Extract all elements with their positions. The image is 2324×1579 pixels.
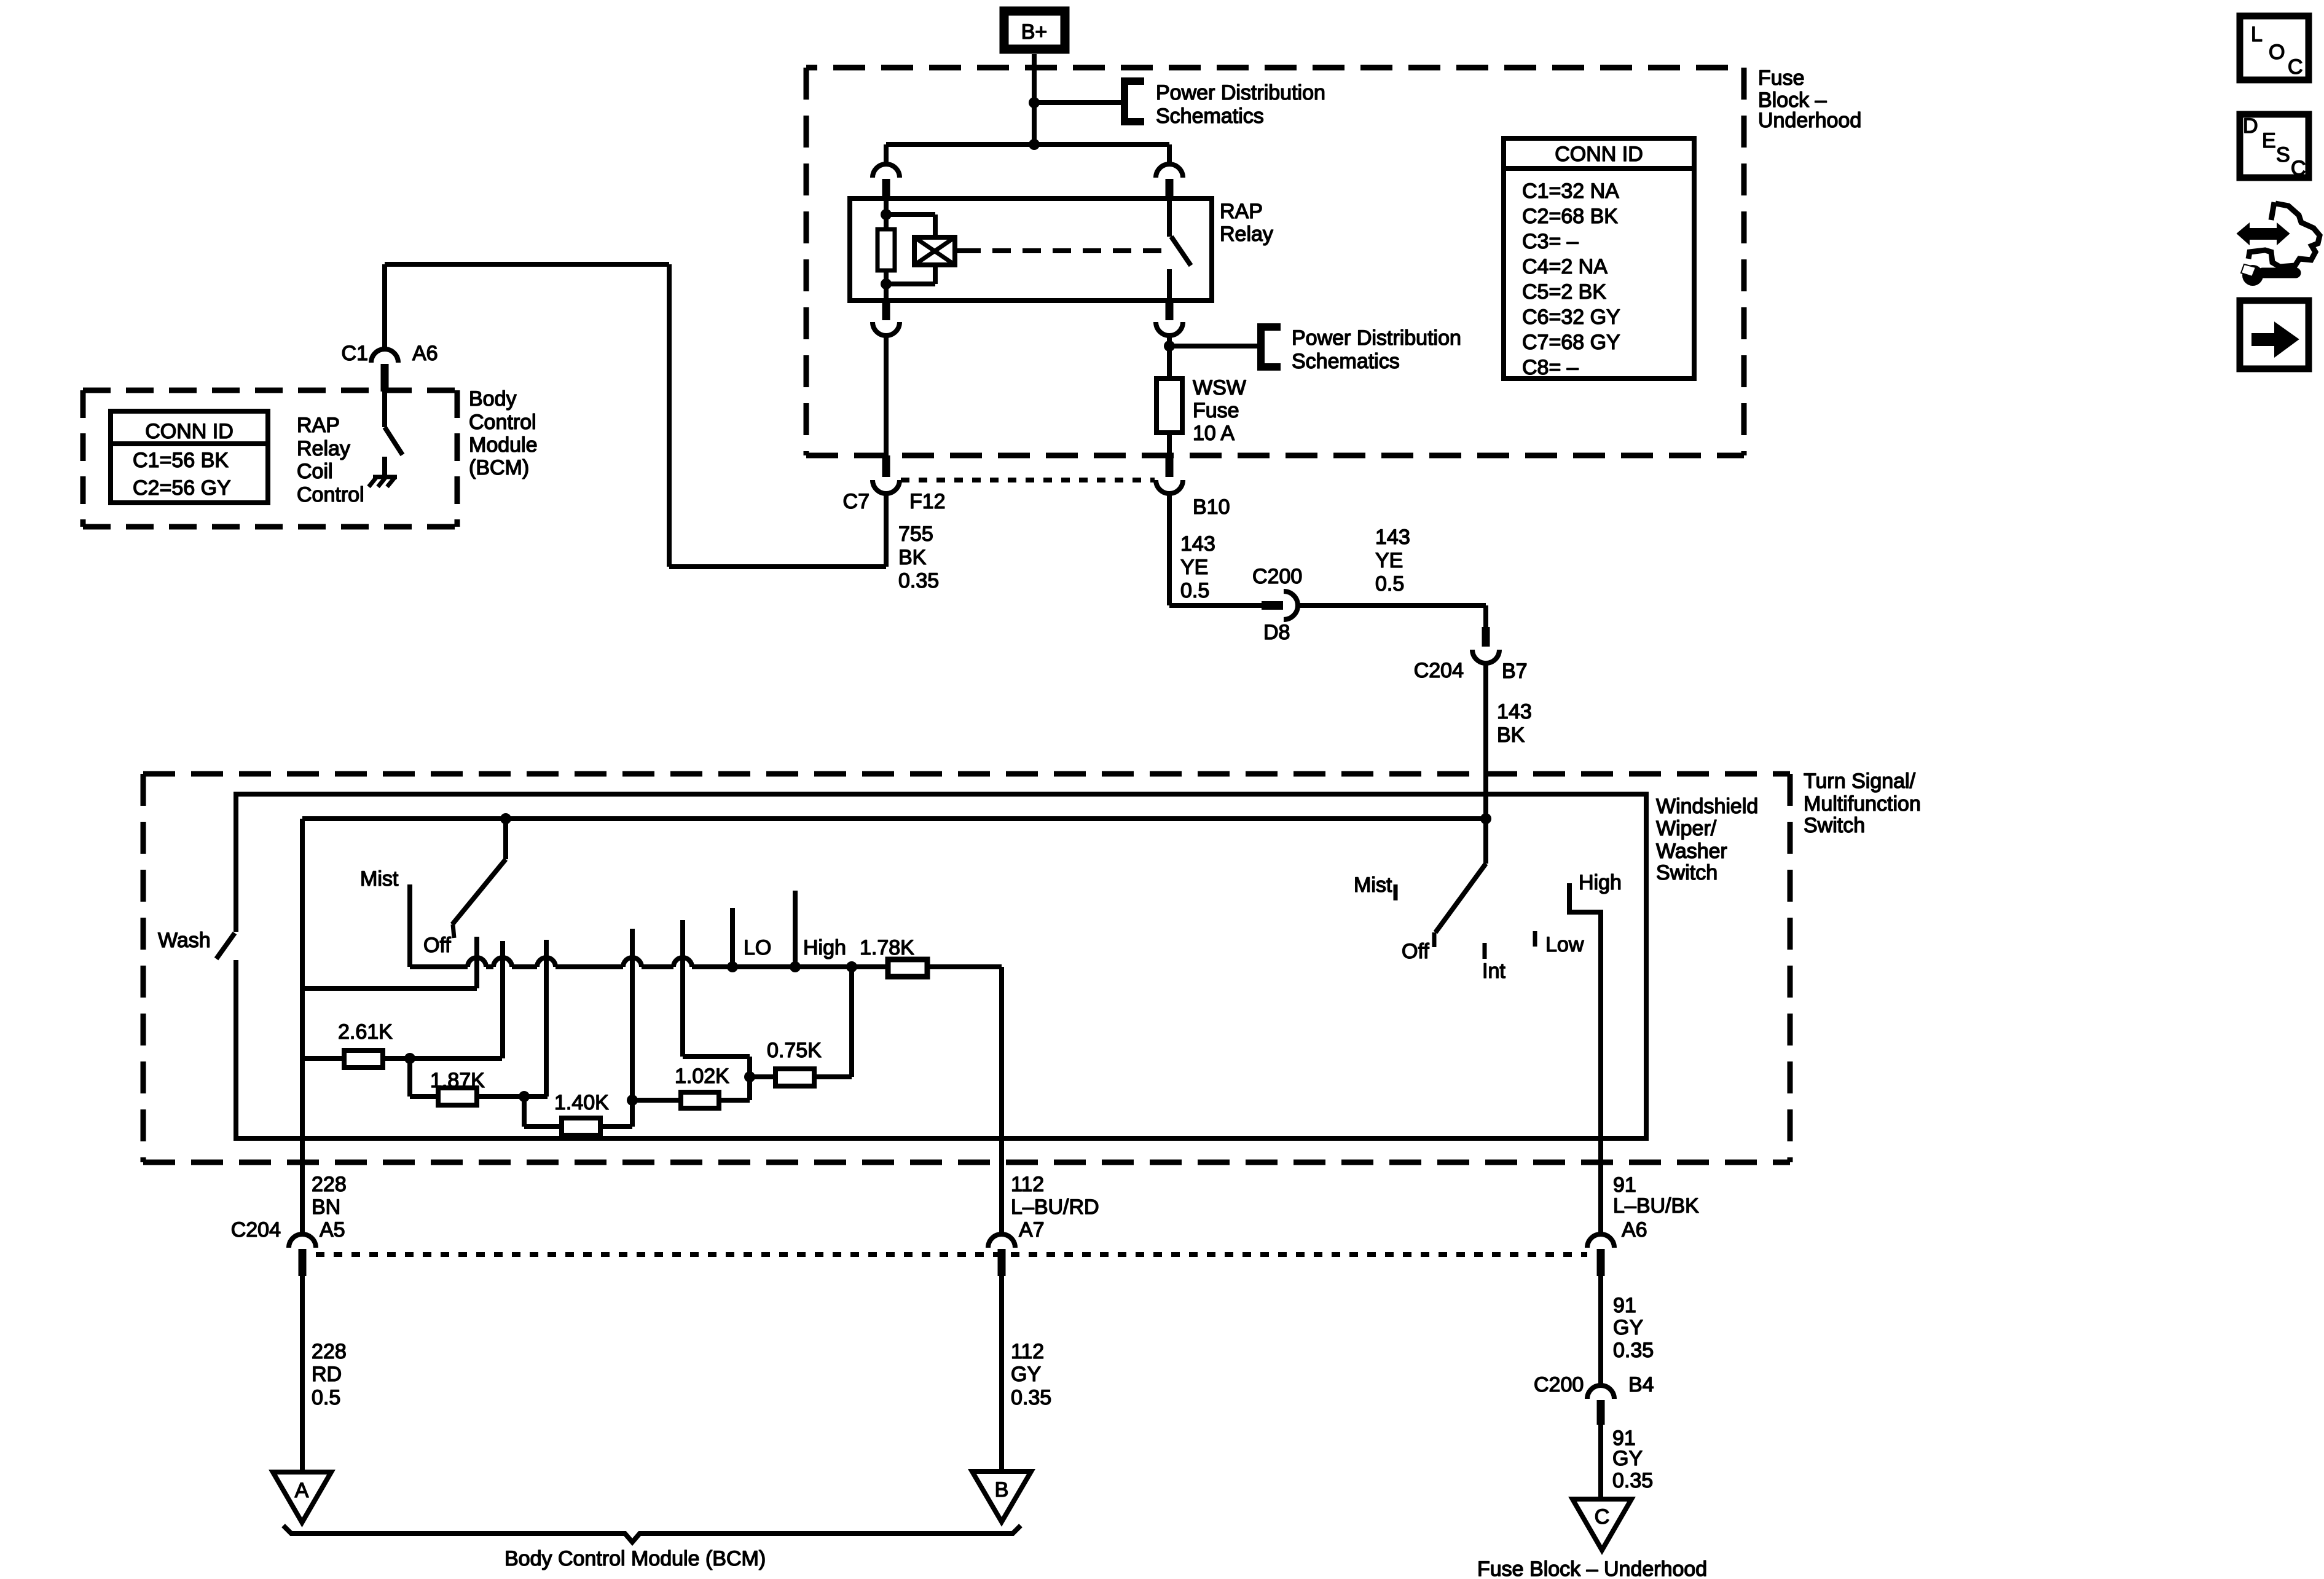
svg-text:A7: A7 — [1019, 1218, 1045, 1242]
svg-text:Fuse: Fuse — [1193, 399, 1239, 422]
svg-text:112: 112 — [1011, 1173, 1044, 1196]
svg-text:BK: BK — [898, 546, 927, 569]
svg-text:Int: Int — [1482, 959, 1505, 983]
svg-text:Mist: Mist — [1354, 873, 1392, 897]
svg-text:B+: B+ — [1021, 20, 1048, 44]
svg-text:228: 228 — [312, 1173, 347, 1196]
svg-text:0.5: 0.5 — [1180, 579, 1209, 602]
svg-text:0.35: 0.35 — [1011, 1386, 1051, 1409]
svg-text:YE: YE — [1375, 549, 1403, 572]
svg-text:Schematics: Schematics — [1292, 350, 1400, 373]
svg-text:Schematics: Schematics — [1156, 104, 1264, 128]
svg-text:BK: BK — [1497, 723, 1525, 747]
svg-text:A6: A6 — [1622, 1218, 1647, 1242]
svg-text:Wash: Wash — [158, 929, 211, 952]
svg-text:O: O — [2269, 41, 2285, 64]
svg-text:C5=2 BK: C5=2 BK — [1522, 280, 1606, 304]
svg-text:C7: C7 — [843, 490, 870, 513]
svg-text:0.5: 0.5 — [1375, 572, 1404, 596]
svg-text:S: S — [2276, 143, 2290, 167]
svg-text:RD: RD — [312, 1363, 342, 1386]
svg-text:GY: GY — [1011, 1363, 1041, 1386]
svg-text:Mist: Mist — [360, 867, 399, 891]
svg-text:Control: Control — [297, 483, 364, 506]
svg-text:Turn Signal/: Turn Signal/ — [1804, 770, 1916, 793]
svg-text:E: E — [2262, 129, 2276, 152]
svg-text:YE: YE — [1180, 556, 1208, 579]
svg-text:0.75K: 0.75K — [767, 1039, 822, 1062]
svg-text:RAP: RAP — [297, 414, 340, 437]
svg-text:112: 112 — [1011, 1340, 1044, 1363]
svg-text:C: C — [2291, 157, 2306, 180]
svg-text:C8= –: C8= – — [1522, 356, 1579, 379]
svg-text:Coil: Coil — [297, 460, 333, 483]
svg-text:B4: B4 — [1628, 1373, 1654, 1396]
svg-text:B: B — [995, 1478, 1009, 1502]
svg-text:Module: Module — [469, 433, 538, 457]
svg-text:B10: B10 — [1193, 495, 1230, 519]
svg-text:F12: F12 — [909, 490, 946, 513]
svg-text:Fuse Block – Underhood: Fuse Block – Underhood — [1477, 1557, 1707, 1579]
svg-text:A: A — [295, 1479, 309, 1502]
svg-text:C200: C200 — [1534, 1373, 1584, 1396]
svg-text:A6: A6 — [412, 342, 438, 365]
svg-text:High: High — [1579, 871, 1622, 894]
svg-text:Body Control Module (BCM): Body Control Module (BCM) — [504, 1547, 766, 1570]
svg-text:Washer: Washer — [1656, 840, 1727, 863]
svg-text:755: 755 — [898, 522, 933, 546]
svg-text:D: D — [2243, 114, 2258, 138]
svg-text:CONN ID: CONN ID — [145, 420, 234, 443]
svg-text:LO: LO — [744, 936, 771, 959]
svg-text:0.35: 0.35 — [1613, 1339, 1654, 1362]
svg-text:Switch: Switch — [1656, 861, 1717, 884]
svg-text:Off: Off — [1402, 940, 1429, 963]
svg-text:Power Distribution: Power Distribution — [1156, 81, 1325, 104]
svg-text:CONN ID: CONN ID — [1555, 143, 1643, 166]
svg-text:1.78K: 1.78K — [860, 936, 914, 959]
svg-text:Body: Body — [469, 387, 517, 411]
svg-text:10 A: 10 A — [1193, 422, 1235, 445]
svg-text:Multifunction: Multifunction — [1804, 792, 1921, 816]
svg-text:228: 228 — [312, 1340, 347, 1363]
svg-text:1.02K: 1.02K — [675, 1065, 729, 1088]
svg-text:C2=56 GY: C2=56 GY — [133, 476, 231, 500]
svg-text:Off: Off — [423, 934, 451, 957]
svg-text:A5: A5 — [320, 1218, 345, 1242]
svg-text:C: C — [1595, 1505, 1610, 1529]
svg-text:0.35: 0.35 — [1612, 1469, 1653, 1492]
svg-text:143: 143 — [1180, 532, 1215, 556]
svg-text:Fuse: Fuse — [1758, 66, 1805, 90]
svg-text:C204: C204 — [1414, 659, 1464, 682]
svg-text:C204: C204 — [231, 1218, 281, 1242]
svg-text:Relay: Relay — [1220, 222, 1273, 246]
svg-text:C3= –: C3= – — [1522, 230, 1579, 253]
svg-text:WSW: WSW — [1193, 376, 1246, 400]
svg-text:(BCM): (BCM) — [469, 456, 529, 479]
svg-text:GY: GY — [1613, 1316, 1643, 1339]
svg-text:C4=2 NA: C4=2 NA — [1522, 255, 1608, 278]
svg-text:Switch: Switch — [1804, 814, 1865, 837]
svg-text:C1=32 NA: C1=32 NA — [1522, 179, 1619, 203]
svg-text:C2=68 BK: C2=68 BK — [1522, 205, 1618, 228]
svg-text:BN: BN — [312, 1195, 340, 1219]
svg-text:Low: Low — [1545, 933, 1584, 956]
svg-text:Windshield: Windshield — [1656, 795, 1758, 818]
svg-text:RAP: RAP — [1220, 200, 1263, 223]
svg-text:GY: GY — [1612, 1447, 1643, 1470]
svg-text:Control: Control — [469, 411, 536, 434]
svg-text:0.5: 0.5 — [312, 1386, 340, 1409]
svg-text:C7=68 GY: C7=68 GY — [1522, 331, 1620, 354]
svg-text:C6=32 GY: C6=32 GY — [1522, 305, 1620, 329]
svg-text:C1: C1 — [342, 342, 368, 365]
svg-text:C: C — [2288, 55, 2303, 79]
svg-text:Relay: Relay — [297, 437, 350, 460]
svg-text:91: 91 — [1613, 1294, 1636, 1317]
svg-text:L–BU/RD: L–BU/RD — [1011, 1195, 1099, 1219]
svg-text:143: 143 — [1497, 700, 1532, 723]
svg-text:Underhood: Underhood — [1758, 109, 1861, 132]
svg-text:L–BU/BK: L–BU/BK — [1613, 1194, 1699, 1218]
svg-text:1.40K: 1.40K — [554, 1091, 609, 1114]
svg-text:B7: B7 — [1502, 660, 1528, 683]
svg-text:143: 143 — [1375, 526, 1410, 549]
svg-text:91: 91 — [1613, 1173, 1636, 1197]
svg-text:Wiper/: Wiper/ — [1656, 817, 1717, 840]
svg-text:C200: C200 — [1252, 565, 1302, 588]
svg-text:L: L — [2251, 23, 2263, 46]
svg-text:0.35: 0.35 — [898, 569, 939, 593]
svg-text:2.61K: 2.61K — [338, 1020, 393, 1044]
svg-text:C1=56 BK: C1=56 BK — [133, 449, 229, 472]
svg-text:Power Distribution: Power Distribution — [1292, 326, 1461, 350]
svg-text:D8: D8 — [1263, 621, 1290, 644]
svg-text:High: High — [803, 936, 846, 959]
